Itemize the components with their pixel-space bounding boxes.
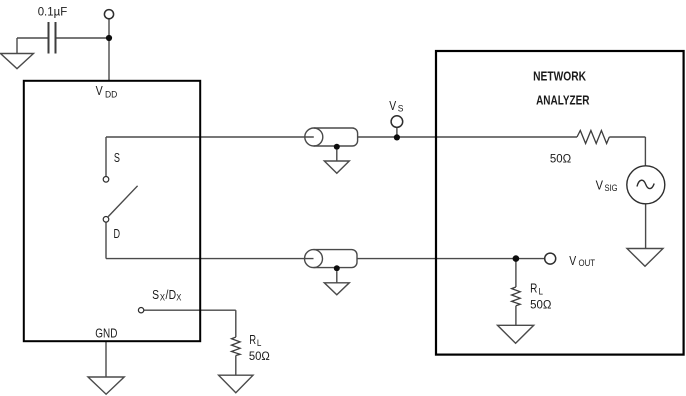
svg-text:DD: DD <box>105 89 117 99</box>
svg-text:S: S <box>152 288 159 302</box>
svg-text:S: S <box>114 152 120 166</box>
svg-text:50Ω: 50Ω <box>530 298 552 311</box>
svg-text:L: L <box>539 286 544 297</box>
svg-text:L: L <box>257 338 262 349</box>
svg-text:X: X <box>160 292 165 303</box>
svg-text:50Ω: 50Ω <box>550 152 572 165</box>
svg-text:S: S <box>398 103 404 113</box>
svg-text:OUT: OUT <box>579 258 596 269</box>
svg-text:SIG: SIG <box>605 182 618 193</box>
svg-text:R: R <box>530 281 537 296</box>
svg-text:V: V <box>569 254 576 268</box>
svg-text:GND: GND <box>95 327 117 340</box>
svg-text:50Ω: 50Ω <box>249 350 270 363</box>
svg-text:V: V <box>596 178 603 193</box>
svg-text:R: R <box>249 334 256 348</box>
svg-text:X: X <box>176 292 181 303</box>
svg-text:NETWORK: NETWORK <box>533 71 587 84</box>
svg-text:D: D <box>169 288 177 302</box>
svg-text:V: V <box>389 99 396 113</box>
svg-text:V: V <box>96 83 103 98</box>
svg-text:0.1µF: 0.1µF <box>38 5 67 18</box>
svg-text:D: D <box>114 228 121 242</box>
svg-text:ANALYZER: ANALYZER <box>536 94 589 107</box>
